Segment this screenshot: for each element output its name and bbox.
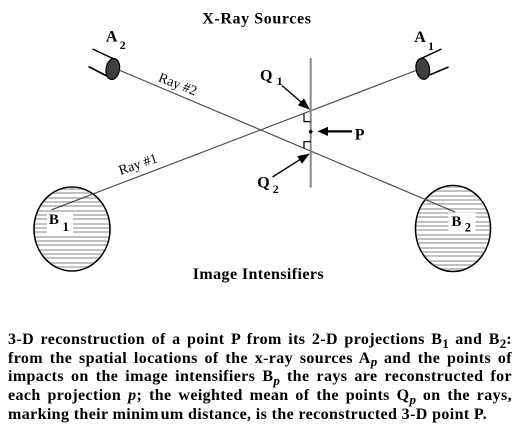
svg-text:Q: Q: [257, 174, 269, 191]
svg-text:A: A: [414, 29, 426, 46]
svg-text:Q: Q: [260, 67, 272, 84]
svg-text:1: 1: [277, 74, 283, 88]
svg-text:B: B: [49, 212, 59, 228]
svg-text:Ray #1: Ray #1: [117, 152, 160, 179]
svg-text:1: 1: [63, 219, 70, 234]
svg-text:X-Ray Sources: X-Ray Sources: [202, 10, 311, 27]
svg-text:Image Intensifiers: Image Intensifiers: [193, 266, 324, 283]
svg-text:2: 2: [273, 182, 279, 196]
svg-text:1: 1: [428, 39, 434, 53]
svg-text:A: A: [106, 29, 118, 46]
svg-text:P: P: [355, 127, 365, 144]
svg-text:B: B: [451, 214, 461, 230]
svg-text:2: 2: [120, 38, 126, 52]
svg-text:2: 2: [465, 220, 471, 234]
